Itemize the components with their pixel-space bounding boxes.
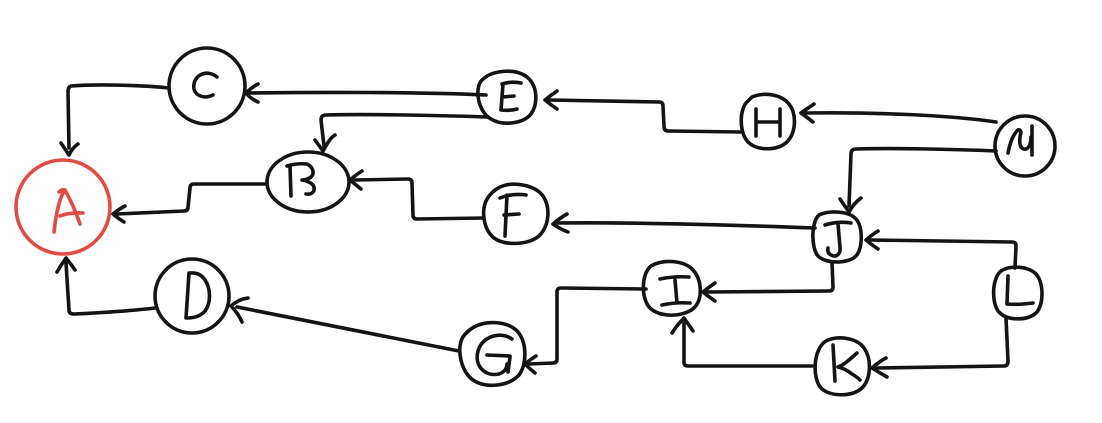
wire M to J: [840, 149, 996, 212]
node E: [478, 71, 536, 123]
wire E to B: [315, 115, 487, 151]
wire J to I: [703, 262, 833, 301]
wire D to A: [57, 258, 155, 314]
node B: [267, 152, 349, 212]
node H: [741, 94, 794, 148]
node D: [155, 259, 229, 333]
wire L to K: [872, 318, 1008, 377]
wire F to B: [350, 171, 484, 219]
wire G to D: [231, 298, 459, 351]
wire B to A: [113, 184, 267, 222]
node C: [169, 48, 245, 124]
wire K to I: [672, 318, 812, 366]
node L: [994, 267, 1042, 319]
wire M to H: [801, 104, 996, 122]
node G: [460, 323, 525, 386]
node A: [16, 160, 110, 254]
node K: [815, 338, 869, 395]
wire H to E: [545, 91, 741, 132]
node F: [484, 184, 548, 243]
wire C to A: [61, 85, 169, 155]
wire L to J: [866, 231, 1016, 268]
wire I to G: [525, 288, 646, 373]
wire J to F: [553, 214, 815, 232]
wire E to C: [246, 84, 486, 102]
node I: [643, 261, 700, 315]
node M: [995, 116, 1055, 176]
node J: [813, 212, 861, 262]
